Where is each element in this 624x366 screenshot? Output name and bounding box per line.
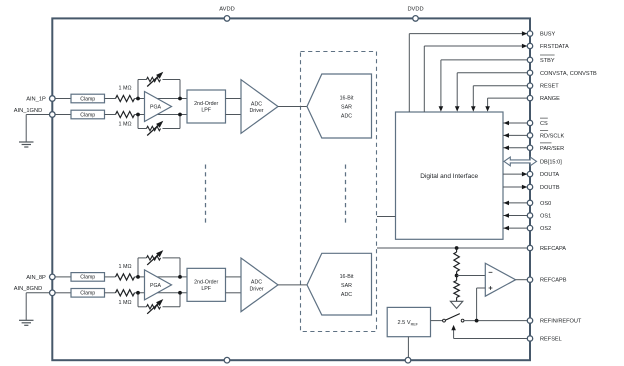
- wire R to LPF ch1 G: [135, 114, 188, 116]
- clamp block ch1 P: [71, 94, 105, 103]
- op-amp ADC driver ch1: [241, 80, 278, 134]
- power pin DVDD: [407, 6, 423, 21]
- resistor divider upper: [454, 248, 459, 276]
- 2nd-order LPF block ch1: [187, 90, 226, 123]
- pin RESET: [527, 83, 559, 90]
- pin OS1: [527, 213, 551, 220]
- wire PAR/SER input: [503, 146, 527, 151]
- svg-text:PGA: PGA: [150, 104, 161, 110]
- svg-text:Clamp: Clamp: [80, 291, 95, 297]
- svg-text:AIN_1GND: AIN_1GND: [14, 108, 42, 114]
- wire vref to agnd terminal: [407, 337, 409, 358]
- wire ch1 G to clamp: [55, 114, 71, 116]
- power pin AVDD: [219, 6, 234, 21]
- ground (signal earth) for AIN_1GND: [19, 142, 34, 147]
- wire ADC bus to digital: [377, 216, 396, 218]
- svg-text:Driver: Driver: [249, 108, 263, 114]
- bus DB[15:0] bidirectional arrow: [504, 157, 537, 166]
- svg-text:BUSY: BUSY: [540, 32, 556, 38]
- svg-text:OS1: OS1: [540, 214, 551, 220]
- wire RANGE input: [485, 98, 527, 112]
- svg-text:AIN_8P: AIN_8P: [26, 275, 46, 281]
- channel ellipsis dots (LPF column): [205, 165, 207, 227]
- pin REFSEL: [527, 336, 561, 343]
- clamp block ch8 P: [71, 273, 105, 282]
- resistor 1 MOhm ch8 P: [116, 264, 135, 280]
- svg-text:1 MΩ: 1 MΩ: [118, 85, 131, 91]
- pin DB[15:0] label: [540, 159, 562, 165]
- wire FRSTDATA output: [424, 44, 527, 112]
- programmable resistor bottom ch8: [147, 299, 164, 314]
- wire ch8 gnd stub: [26, 293, 49, 320]
- svg-text:LPF: LPF: [201, 108, 211, 114]
- wire R to LPF ch1 P: [135, 98, 188, 100]
- svg-text:Driver: Driver: [249, 286, 263, 292]
- PGA feedback loop bottom ch8: [138, 293, 180, 307]
- wire OS2 input: [503, 226, 527, 231]
- svg-text:16-Bit: 16-Bit: [340, 96, 354, 102]
- svg-text:AIN_1P: AIN_1P: [26, 97, 46, 103]
- wire LPF to driver ch1 G: [226, 114, 242, 116]
- pin CONVSTA, CONVSTB: [527, 70, 597, 77]
- wire CONVSTA, CONVSTB input: [455, 73, 527, 112]
- svg-text:2nd-Order: 2nd-Order: [194, 101, 218, 107]
- pin OS0: [527, 200, 551, 207]
- ground (signal earth) for AIN_8GND: [19, 320, 34, 325]
- ground terminal AGND: [224, 357, 230, 363]
- svg-text:REFIN/REFOUT: REFIN/REFOUT: [540, 319, 582, 325]
- wire ch1 P to clamp: [55, 98, 71, 100]
- PGA feedback loop bottom ch1: [138, 115, 180, 129]
- op-amp PGA ch8: [145, 270, 172, 300]
- pin BUSY: [527, 31, 555, 38]
- svg-text:DVDD: DVDD: [407, 6, 423, 12]
- node ch1 in-: [136, 113, 140, 117]
- svg-text:RANGE: RANGE: [540, 96, 560, 102]
- wire DOUTA output: [503, 172, 527, 177]
- svg-text:OS0: OS0: [540, 201, 551, 207]
- svg-text:REFCAPB: REFCAPB: [540, 278, 567, 284]
- PGA feedback loop top ch8: [138, 258, 180, 277]
- node divider mid: [455, 274, 459, 278]
- svg-text:1 MΩ: 1 MΩ: [118, 300, 131, 306]
- node ch8 in-: [136, 291, 140, 295]
- input terminal AIN_8P: [26, 274, 55, 281]
- analog ground (open triangle): [450, 301, 462, 308]
- svg-text:SAR: SAR: [341, 105, 352, 111]
- svg-text:1 MΩ: 1 MΩ: [118, 264, 131, 270]
- svg-text:RD/SCLK: RD/SCLK: [540, 133, 565, 139]
- device boundary: [52, 18, 530, 360]
- programmable resistor top ch1: [147, 72, 164, 87]
- resistor 1 MOhm ch1 G: [116, 111, 135, 127]
- wire OS0 input: [503, 201, 527, 206]
- wire ch8 P to clamp: [55, 276, 71, 278]
- wire driver to ADC ch1: [278, 106, 307, 108]
- wire driver to ADC ch8: [278, 284, 307, 286]
- svg-text:1 MΩ: 1 MΩ: [118, 122, 131, 128]
- wire R to LPF ch8 P: [135, 276, 188, 278]
- svg-text:Digital and Interface: Digital and Interface: [420, 173, 478, 180]
- dashed ADC subsystem box: [301, 52, 377, 332]
- svg-text:CONVSTA, CONVSTB: CONVSTA, CONVSTB: [540, 71, 597, 77]
- node ch1 out+: [178, 97, 182, 101]
- svg-text:FRSTDATA: FRSTDATA: [540, 44, 569, 50]
- svg-text:OS2: OS2: [540, 226, 551, 232]
- wire RESET input: [471, 86, 527, 112]
- node ch8 in+: [136, 275, 140, 279]
- input terminal AIN_8GND: [14, 286, 55, 295]
- pin OS2: [527, 225, 551, 232]
- svg-text:ADC: ADC: [341, 292, 352, 298]
- clamp block ch1 G: [71, 110, 105, 119]
- wire switch to REFIN/REFOUT pin: [464, 320, 527, 322]
- programmable resistor top ch8: [147, 250, 164, 265]
- svg-text:STBY: STBY: [540, 58, 555, 64]
- wire DOUTB output: [503, 185, 527, 190]
- svg-text:16-Bit: 16-Bit: [340, 274, 354, 280]
- svg-text:ADC: ADC: [251, 101, 262, 107]
- pin PAR/SER: [527, 143, 564, 152]
- svg-text:SAR: SAR: [341, 283, 352, 289]
- pin RANGE: [527, 95, 560, 102]
- 16-bit SAR ADC ch8: [307, 253, 372, 315]
- wire clamp to R ch8 G: [105, 292, 116, 294]
- clamp block ch8 G: [71, 289, 105, 298]
- wire clamp to R ch1 P: [105, 98, 116, 100]
- wire R to LPF ch8 G: [135, 292, 188, 294]
- pin REFCAPB: [527, 277, 566, 284]
- wire divider mid to buffer inverting input: [457, 275, 486, 277]
- switch REFSEL (SPST): [443, 314, 464, 322]
- wire RD/SCLK input: [503, 133, 527, 138]
- svg-text:DOUTA: DOUTA: [540, 172, 559, 178]
- 2nd-order LPF block ch8: [187, 268, 226, 301]
- wire LPF to driver ch8 P: [226, 276, 242, 278]
- input terminal AIN_1P: [26, 96, 55, 103]
- wire ch1 gnd stub: [26, 115, 49, 142]
- pin FRSTDATA: [527, 43, 569, 50]
- pin STBY: [527, 55, 555, 64]
- pin DOUTB: [527, 184, 560, 191]
- svg-text:PGA: PGA: [150, 283, 161, 289]
- wire LPF to driver ch1 P: [226, 98, 242, 100]
- 16-bit SAR ADC ch1: [307, 74, 372, 138]
- channel ellipsis dots (ADC column): [345, 165, 347, 227]
- wire vref output to switch: [431, 320, 443, 322]
- svg-text:Clamp: Clamp: [80, 96, 95, 102]
- svg-text:RESET: RESET: [540, 84, 559, 90]
- node ch1 in+: [136, 97, 140, 101]
- node REFCAPA divider tap: [455, 246, 459, 250]
- op-amp PGA ch1: [145, 92, 172, 122]
- wire ch8 G to clamp: [55, 292, 71, 294]
- node ch8 out-: [178, 291, 182, 295]
- svg-text:REFSEL: REFSEL: [540, 337, 562, 343]
- svg-text:DOUTB: DOUTB: [540, 185, 560, 191]
- svg-text:LPF: LPF: [201, 286, 211, 292]
- svg-text:2nd-Order: 2nd-Order: [194, 279, 218, 285]
- resistor divider lower: [454, 276, 459, 302]
- svg-text:ADC: ADC: [341, 113, 352, 119]
- pin RD/SCLK: [527, 131, 564, 140]
- resistor 1 MOhm ch8 G: [116, 290, 135, 307]
- svg-text:AVDD: AVDD: [219, 6, 234, 12]
- pin CS: [527, 118, 548, 127]
- input terminal AIN_1GND: [14, 108, 55, 117]
- pin REFIN/REFOUT: [527, 318, 582, 325]
- svg-text:AIN_8GND: AIN_8GND: [14, 286, 42, 292]
- wire CS input: [503, 121, 527, 126]
- svg-text:Clamp: Clamp: [80, 112, 95, 118]
- op-amp reference buffer U-REF: [485, 263, 515, 296]
- svg-text:Clamp: Clamp: [80, 275, 95, 281]
- wire BUSY output: [409, 31, 527, 112]
- svg-text:PAR/SER: PAR/SER: [540, 146, 564, 152]
- wire STBY input: [439, 60, 528, 112]
- digital and interface block U-DIG: [396, 112, 504, 239]
- resistor 1 MOhm ch1 P: [116, 85, 135, 101]
- wire OS1 input: [503, 213, 527, 218]
- pin REFCAPA: [527, 245, 566, 252]
- pin DOUTA: [527, 171, 559, 178]
- node REFIN junction: [475, 319, 479, 323]
- op-amp ADC driver ch8: [241, 258, 278, 312]
- wire REFSEL control: [451, 325, 527, 339]
- 2.5V reference block: [387, 307, 430, 336]
- node ch8 out+: [178, 275, 182, 279]
- wire REFCAPA net: [377, 247, 527, 249]
- svg-text:ADC: ADC: [251, 280, 262, 286]
- PGA feedback loop top ch1: [138, 80, 180, 99]
- ground terminal DGND: [405, 357, 411, 363]
- wire LPF to driver ch8 G: [226, 292, 242, 294]
- node ch1 out-: [178, 113, 182, 117]
- wire clamp to R ch8 P: [105, 276, 116, 278]
- wire buffer output to REFCAPB: [516, 279, 528, 281]
- wire clamp to R ch1 G: [105, 114, 116, 116]
- programmable resistor bottom ch1: [147, 121, 164, 136]
- svg-text:DB[15:0]: DB[15:0]: [540, 159, 562, 165]
- svg-text:REFCAPA: REFCAPA: [540, 246, 566, 252]
- svg-text:CS: CS: [540, 121, 548, 127]
- wire buffer noninverting input to REFIN node: [477, 288, 486, 321]
